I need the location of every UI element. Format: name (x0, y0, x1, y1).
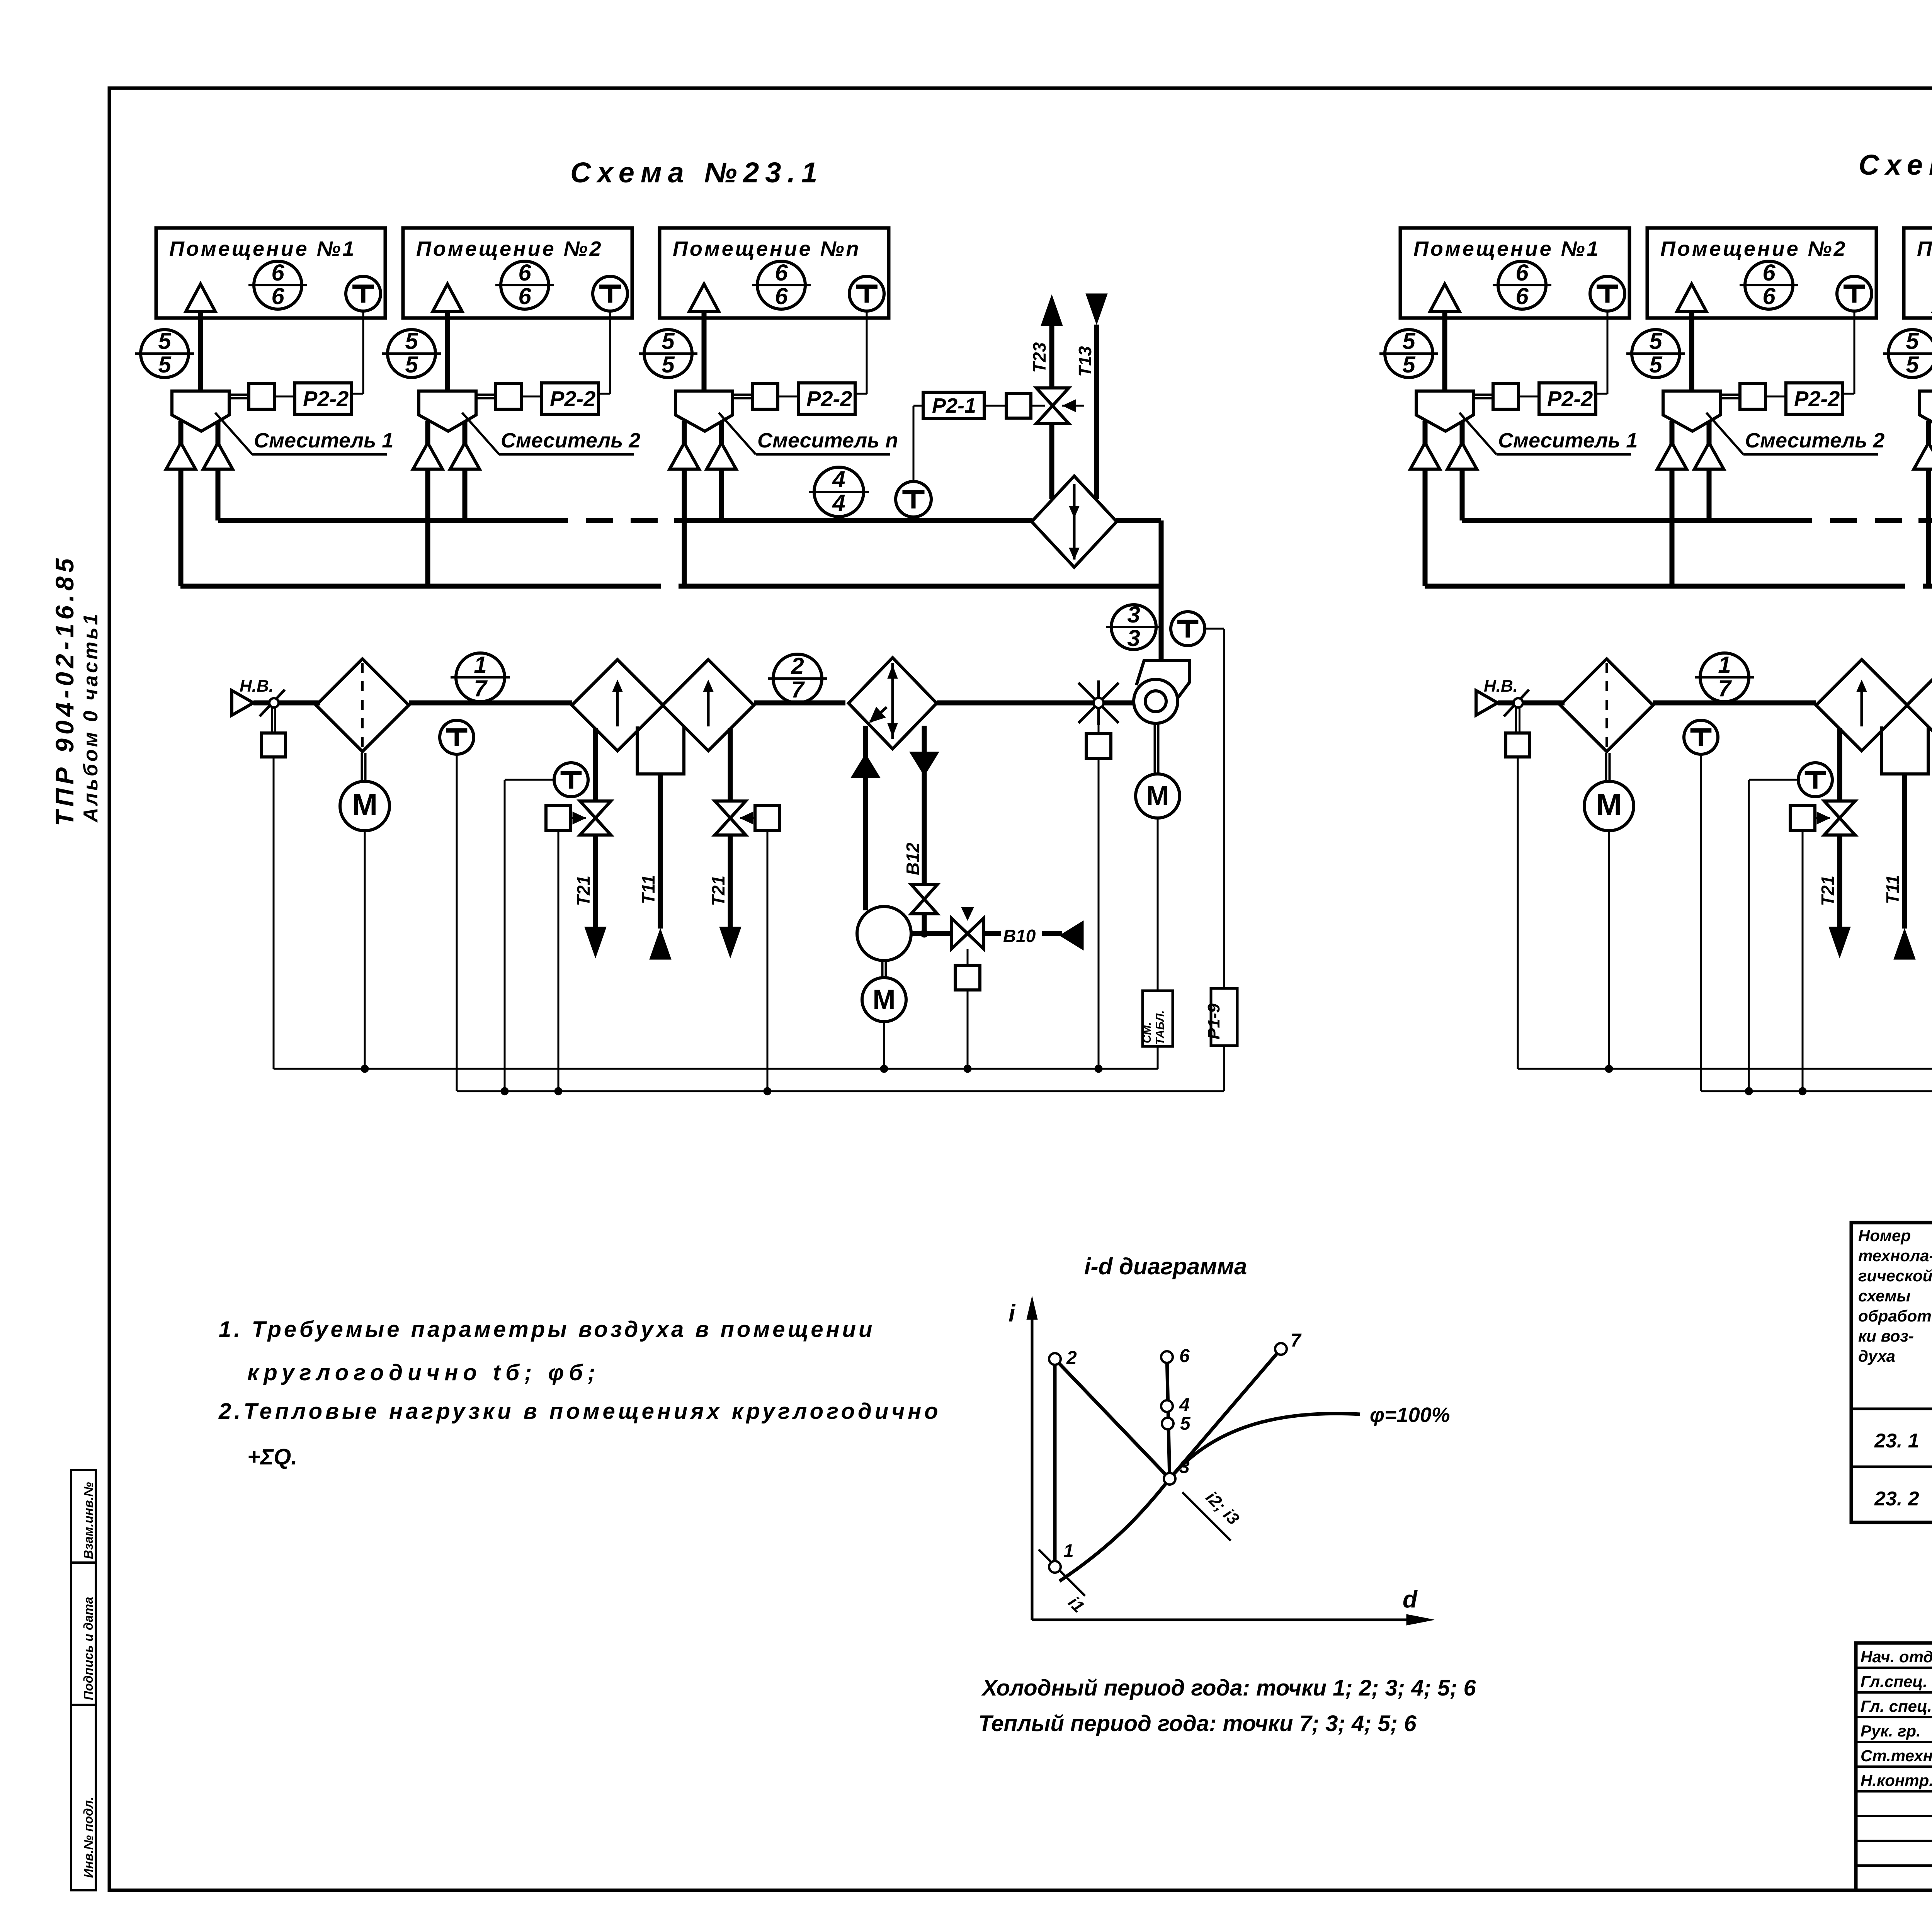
svg-text:Смеситель 2: Смеситель 2 (1745, 429, 1884, 452)
svg-text:Номер: Номер (1858, 1226, 1911, 1245)
table row 23.2 (1874, 1483, 1932, 1510)
i-d diagram d axis (1032, 1586, 1434, 1625)
svg-text:6: 6 (271, 283, 284, 309)
svg-text:5: 5 (1649, 328, 1663, 354)
room box Pomeshchenie No2 (schema 23.2) (1647, 228, 1876, 318)
room box Pomeshchenie Non (schema 23.1) (660, 228, 889, 318)
svg-text:7: 7 (1718, 675, 1732, 701)
pump motor M (schema 23.1) (862, 961, 906, 1022)
mixer body 23.1.1 (172, 391, 229, 431)
damper motor M (schema 23.2) (1584, 753, 1634, 831)
title block grid (1856, 1643, 1932, 1890)
svg-text:В12: В12 (903, 842, 923, 875)
drain line B10 label and arrow (schema 23.1) (984, 921, 1083, 950)
regulator box P2-2 23.2.1 (1539, 383, 1596, 414)
T sensor circle room 23.1.n (849, 276, 884, 311)
room box Pomeshchenie No2 (schema 23.1) (403, 228, 632, 318)
mixer actuator link 23.2.1 (1473, 384, 1539, 409)
tag box P1-9 (schema 23.1) (1204, 988, 1237, 1046)
svg-text:6: 6 (518, 260, 531, 286)
T sensor after damper (schema 23.1) (440, 720, 474, 754)
svg-text:5: 5 (1402, 328, 1416, 354)
tick through point 1 with label i1 (1039, 1549, 1088, 1616)
svg-text:Смеситель 1: Смеситель 1 (254, 429, 393, 452)
svg-text:схемы: схемы (1858, 1287, 1911, 1305)
room box Pomeshchenie No1 (schema 23.2) (1400, 228, 1629, 318)
svg-text:3: 3 (1179, 1457, 1190, 1477)
indicator circle 5/5 room 23.1.1 (135, 328, 194, 378)
svg-text:7: 7 (1291, 1330, 1302, 1351)
mixer body 23.2.2 (1663, 391, 1720, 431)
table row 23.1 (1874, 1427, 1932, 1455)
mixer input left line 23.2.n (1914, 421, 1932, 586)
svg-text:6: 6 (271, 260, 284, 286)
svg-text:6: 6 (1515, 260, 1529, 286)
mixer input right line 23.1.2 (450, 421, 480, 520)
svg-text:Рук. гр.: Рук. гр. (1861, 1722, 1921, 1740)
process line 3-6 (1167, 1357, 1170, 1479)
svg-text:1: 1 (1718, 652, 1731, 678)
supply diffuser triangle room 23.1.n (689, 284, 719, 391)
svg-text:Т21: Т21 (1818, 876, 1838, 906)
svg-text:Схема №23.1: Схема №23.1 (570, 156, 823, 189)
mixer body 23.2.1 (1416, 391, 1473, 431)
svg-text:ТАБЛ.: ТАБЛ. (1154, 1010, 1167, 1045)
svg-text:1: 1 (1063, 1541, 1074, 1561)
supply diffuser triangle room 23.2.1 (1430, 284, 1459, 391)
wire damper motor to bus A (schema 23.2) (1605, 830, 1613, 1073)
spray pump circle (schema 23.1) (857, 906, 911, 961)
svg-text:Помещение №2: Помещение №2 (416, 237, 603, 260)
heater valve T21 left (schema 23.1) (546, 728, 611, 958)
heater connection chamber (schema 23.1) (637, 726, 684, 774)
svg-text:5: 5 (662, 352, 675, 378)
svg-text:2: 2 (1066, 1348, 1077, 1368)
svg-text:Т23: Т23 (1029, 342, 1049, 373)
svg-text:обработ-: обработ- (1858, 1307, 1932, 1325)
svg-text:Р2-2: Р2-2 (1794, 386, 1840, 411)
sensor circle 6/6 room 23.2.1 (1493, 260, 1551, 309)
svg-text:Помещение №n: Помещение №n (1917, 237, 1932, 260)
recirculation bus upper (schema 23.1) (218, 518, 1161, 523)
left stamp box Vzam.inv. (71, 1470, 96, 1563)
svg-text:3: 3 (1127, 625, 1140, 651)
main line damper->heater (schema 23.1) (409, 701, 572, 706)
svg-text:7: 7 (474, 675, 488, 701)
recirculation bus upper (schema 23.2) (1462, 518, 1932, 523)
pipe T11 with arrow (schema 23.2) (1883, 774, 1915, 959)
svg-text:Ст.техн.: Ст.техн. (1861, 1747, 1932, 1765)
svg-text:23. 2: 23. 2 (1874, 1488, 1919, 1510)
svg-text:6: 6 (1515, 283, 1529, 309)
mixer actuator link 23.2.2 (1720, 384, 1786, 409)
circle 1/7 (schema 23.1) (451, 652, 510, 702)
T sensor at fan (schema 23.1) (1171, 612, 1205, 646)
T sensor heater (schema 23.1) (505, 763, 588, 797)
heater diamond 2 (schema 23.1) (663, 660, 754, 751)
svg-text:1. Требуемые параметры возду: 1. Требуемые параметры воздуха в помещен… (219, 1317, 875, 1342)
mixer label Smesitel n (719, 413, 898, 454)
room box Pomeshchenie No1 (schema 23.1) (156, 228, 385, 318)
exhaust bus lower (schema 23.1) (180, 584, 1161, 589)
P2-1 actuator square (schema 23.1) (984, 393, 1045, 418)
svg-text:В10: В10 (1003, 926, 1036, 946)
point 3 (1164, 1457, 1190, 1485)
schema title 23.2 (1859, 149, 1932, 181)
T sensor heater (schema 23.2) (1749, 763, 1832, 797)
svg-text:Инв.№ подл.: Инв.№ подл. (81, 1797, 95, 1878)
svg-text:5: 5 (1402, 352, 1416, 378)
svg-text:Помещение №2: Помещение №2 (1660, 237, 1847, 260)
svg-text:Р2-2: Р2-2 (806, 386, 852, 411)
heater diamond 2 (schema 23.2) (1907, 660, 1932, 751)
T23 valve (schema 23.1) (1036, 388, 1084, 423)
svg-text:6: 6 (518, 283, 531, 309)
svg-text:5: 5 (158, 352, 172, 378)
point 4 (1161, 1395, 1190, 1415)
sensor circle 6/6 room 23.2.2 (1740, 260, 1798, 309)
point 6 (1161, 1346, 1190, 1366)
wire T sensor to P2-2 room 23.1.1 (352, 311, 363, 394)
wire T2 to bus B (schema 23.1) (501, 780, 509, 1095)
intake damper (schema 23.1) (253, 690, 320, 757)
wire T1 to bus B (schema 23.1) (456, 754, 458, 1091)
control bus B (schema 23.1) (457, 1090, 1224, 1092)
indicator circle 4/4 (schema 23.1) (809, 466, 869, 517)
note 2 heat loads (218, 1399, 941, 1469)
mixer actuator link 23.1.n (733, 384, 798, 409)
svg-text:+ΣQ.: +ΣQ. (247, 1444, 297, 1469)
svg-text:Нач. отд: Нач. отд (1861, 1648, 1932, 1666)
wire valve T21 left to bus B (schema 23.2) (1799, 830, 1806, 1095)
svg-text:ки воз-: ки воз- (1858, 1327, 1914, 1345)
svg-text:Помещение №1: Помещение №1 (169, 237, 356, 260)
wire T2 to bus B (schema 23.2) (1745, 780, 1753, 1095)
svg-text:М: М (352, 787, 378, 822)
svg-text:Подпись и дата: Подпись и дата (81, 1597, 95, 1701)
wire T sensor to P2-2 room 23.1.n (855, 311, 867, 394)
svg-text:Гл. спец.: Гл. спец. (1861, 1697, 1932, 1715)
left stamp box Inv.No podl. (71, 1705, 96, 1890)
heater diamond 1 (schema 23.2) (1816, 660, 1907, 751)
indicator circle 5/5 room 23.2.n (1883, 328, 1932, 378)
svg-text:i-d диаграмма: i-d диаграмма (1084, 1253, 1247, 1279)
svg-text:Н.В.: Н.В. (1484, 677, 1518, 696)
table header col1 (1858, 1226, 1932, 1365)
cooler supply pipe with up arrow (schema 23.1) (851, 726, 880, 910)
svg-text:Р2-2: Р2-2 (1547, 386, 1593, 411)
point 1 (1049, 1541, 1074, 1573)
wire T sensor to P2-2 room 23.1.2 (599, 311, 610, 394)
mixer actuator link 23.1.2 (476, 384, 542, 409)
mixer body 23.1.2 (419, 391, 476, 431)
svg-text:Холодный период года: точки 1;: Холодный период года: точки 1; 2; 3; 4; … (981, 1675, 1476, 1701)
sensor circle 6/6 room 23.1.2 (495, 260, 554, 309)
svg-text:СМ.: СМ. (1141, 1022, 1153, 1043)
process line 3-7 (1170, 1349, 1281, 1479)
mixer input right line 23.1.1 (203, 421, 233, 520)
svg-text:7: 7 (791, 677, 805, 702)
heat recovery exchanger diamond (schema 23.1) (1032, 476, 1117, 567)
svg-text:Т21: Т21 (573, 876, 594, 906)
indicator circle 5/5 room 23.1.n (639, 328, 697, 378)
svg-text:Т11: Т11 (1883, 875, 1903, 904)
svg-text:Теплый период года: точки 7; 3: Теплый период года: точки 7; 3; 4; 5; 6 (978, 1711, 1417, 1736)
svg-text:5: 5 (662, 328, 675, 354)
tag box SM.TABL. on fan motor wire (schema 23.1) (1141, 818, 1173, 1069)
svg-text:6: 6 (1762, 260, 1776, 286)
svg-text:1: 1 (474, 652, 486, 678)
note 1 required air parameters (219, 1317, 875, 1385)
svg-text:Р2-2: Р2-2 (550, 386, 595, 411)
outdoor air intake N.V. (schema 23.1) (232, 677, 274, 715)
regulator box P2-2 23.1.1 (295, 383, 352, 414)
svg-text:5: 5 (405, 352, 418, 378)
svg-text:ТПР 904-02-16.85: ТПР 904-02-16.85 (50, 554, 79, 826)
wire T sensor to P2-2 room 23.2.2 (1843, 311, 1854, 394)
left stamp box Podpis i data (71, 1563, 96, 1705)
schema title 23.1 (570, 156, 823, 189)
cooler diamond (schema 23.1) (849, 658, 937, 749)
wire valve B10 to bus A (schema 23.1) (964, 990, 971, 1073)
main line heater->cooler (schema 23.1) (754, 701, 845, 706)
wire valve T21 left to bus B (schema 23.1) (554, 830, 562, 1095)
svg-text:6: 6 (775, 260, 788, 286)
svg-text:Помещение №1: Помещение №1 (1413, 237, 1600, 260)
svg-text:i: i (1009, 1300, 1016, 1327)
T sensor circle room 23.1.1 (346, 276, 381, 311)
T sensor circle room 23.2.2 (1837, 276, 1872, 311)
svg-text:Смеситель 1: Смеситель 1 (1498, 429, 1638, 452)
title block signature labels (1861, 1648, 1932, 1789)
mixer input left line 23.2.2 (1657, 421, 1687, 586)
wire intake damper to bus A (schema 23.1) (273, 757, 275, 1069)
mixer input right line 23.2.2 (1694, 421, 1724, 520)
indicator circle 5/5 room 23.2.1 (1379, 328, 1438, 378)
circle 1/7 (schema 23.2) (1695, 652, 1754, 702)
svg-text:d: d (1403, 1586, 1418, 1613)
point 2 (1049, 1348, 1077, 1368)
main line damper->heater (schema 23.2) (1653, 701, 1816, 706)
svg-text:М: М (1596, 787, 1622, 822)
mixer body 23.2.n (1920, 391, 1932, 431)
svg-text:4: 4 (832, 490, 845, 516)
svg-text:3: 3 (1127, 602, 1140, 628)
wire pump motor to bus A (schema 23.1) (880, 1022, 888, 1073)
svg-text:6: 6 (1762, 283, 1776, 309)
svg-text:Р1-9: Р1-9 (1204, 1003, 1223, 1039)
svg-text:духа: духа (1858, 1347, 1895, 1365)
i-d diagram i axis (1009, 1296, 1037, 1620)
circle 2/7 (schema 23.1) (768, 653, 827, 703)
regulator box P2-2 23.2.2 (1786, 383, 1843, 414)
mixer actuator link 23.1.1 (229, 384, 295, 409)
outdoor air intake N.V. (schema 23.2) (1476, 677, 1518, 715)
svg-text:Альбом 0 часть1: Альбом 0 часть1 (80, 612, 102, 823)
left margin vertical text TPR 904-02-16.85 Album 0 part 1 (50, 554, 102, 826)
mixer body 23.1.n (675, 391, 733, 431)
heater diamond 1 (schema 23.1) (572, 660, 663, 751)
pipe T23 with arrow (schema 23.1) (1029, 295, 1063, 499)
regulator box P2-1 (schema 23.1) (923, 392, 984, 418)
svg-text:4: 4 (832, 466, 845, 492)
svg-text:Н.В.: Н.В. (240, 677, 274, 696)
main line cooler->fan with shutoff (schema 23.1) (937, 680, 1134, 759)
indicator circle 5/5 room 23.1.2 (382, 328, 441, 378)
svg-text:Т21: Т21 (708, 876, 728, 906)
wire fan shutoff to bus A (schema 23.1) (1095, 759, 1102, 1073)
svg-text:6: 6 (1179, 1346, 1190, 1366)
wire T to P2-1 (schema 23.1) (913, 406, 923, 481)
mixer input left line 23.2.1 (1410, 421, 1440, 586)
mixer label Smesitel 1 (215, 413, 393, 454)
T sensor near 4/4 (schema 23.1) (896, 481, 931, 517)
svg-text:5: 5 (1906, 328, 1919, 354)
exhaust bus lower (schema 23.2) (1425, 584, 1932, 589)
svg-text:круглогодично tб; φб;: круглогодично tб; φб; (247, 1360, 600, 1385)
svg-text:Т13: Т13 (1075, 346, 1095, 377)
svg-text:Р2-1: Р2-1 (932, 394, 976, 417)
tick through point 3 with labels i2 i3 (1182, 1488, 1243, 1541)
intake damper (schema 23.2) (1498, 690, 1565, 757)
mixer label Smesitel 2 (1706, 413, 1884, 454)
wire T1 to bus B (schema 23.2) (1700, 754, 1702, 1091)
svg-text:2.Тепловые нагрузки в помещ: 2.Тепловые нагрузки в помещениях круглог… (218, 1399, 941, 1424)
air damper diamond with dashed axis (schema 23.2) (1560, 659, 1653, 752)
wire T sensor to P2-2 room 23.2.1 (1596, 311, 1607, 394)
wire valve T21 right to bus B (schema 23.1) (764, 830, 771, 1095)
mixer input right line 23.2.1 (1447, 421, 1477, 520)
process line 2-3 (1055, 1359, 1170, 1479)
svg-text:Смеситель n: Смеситель n (757, 429, 898, 452)
svg-text:φ=100%: φ=100% (1370, 1403, 1450, 1427)
heater connection chamber (schema 23.2) (1881, 726, 1928, 774)
damper motor M (schema 23.1) (340, 753, 389, 831)
mixer input left line 23.1.n (670, 421, 699, 586)
svg-text:5: 5 (405, 328, 418, 354)
svg-text:технола-: технола- (1858, 1247, 1932, 1265)
supply diffuser triangle room 23.1.1 (186, 284, 215, 391)
cooler return pipe B12 (schema 23.1) (903, 726, 939, 934)
T sensor after damper (schema 23.2) (1684, 720, 1718, 754)
phi 100 percent curve (1060, 1403, 1450, 1581)
svg-text:М: М (872, 985, 895, 1015)
wire damper motor to bus A (schema 23.1) (361, 830, 369, 1073)
supply diffuser triangle room 23.1.2 (433, 284, 462, 391)
fan motor M (schema 23.1) (1136, 723, 1180, 818)
T sensor circle room 23.1.2 (593, 276, 628, 311)
svg-text:гической: гической (1858, 1267, 1932, 1285)
heater valve T21 right (schema 23.1) (708, 728, 780, 958)
svg-text:5: 5 (1180, 1413, 1191, 1434)
svg-text:5: 5 (158, 328, 172, 354)
riser from buses to fan (schema 23.1) (1159, 520, 1164, 662)
pump outlet line to valve B10 (schema 23.1) (911, 930, 951, 937)
mixer input left line 23.1.2 (413, 421, 442, 586)
point 7 (1275, 1330, 1302, 1355)
regulator box P2-2 23.1.n (798, 383, 855, 414)
svg-text:М: М (1146, 781, 1169, 811)
indicator circle 5/5 room 23.2.2 (1626, 328, 1685, 378)
svg-text:Смеситель 2: Смеситель 2 (501, 429, 640, 452)
sensor circle 6/6 room 23.1.1 (248, 260, 307, 309)
control bus A (schema 23.2) (1518, 1068, 1932, 1070)
mixer input right line 23.1.n (707, 421, 736, 520)
control bus A (schema 23.1) (274, 1068, 1158, 1070)
svg-text:5: 5 (1906, 352, 1919, 378)
T sensor circle room 23.2.1 (1590, 276, 1625, 311)
regulator box P2-2 23.1.2 (542, 383, 599, 414)
mixer label Smesitel 2 (462, 413, 640, 454)
sensor circle 6/6 room 23.1.n (752, 260, 811, 309)
valve B10 with actuator (schema 23.1) (951, 907, 984, 990)
svg-text:Помещение №n: Помещение №n (673, 237, 861, 260)
svg-text:Н.контр.: Н.контр. (1861, 1771, 1932, 1789)
svg-text:Гл.спец.: Гл.спец. (1861, 1672, 1927, 1690)
wire T fan sensor to P1-9 (schema 23.1) (1205, 629, 1224, 1091)
control bus B (schema 23.2) (1701, 1090, 1932, 1092)
svg-text:Т11: Т11 (638, 875, 658, 904)
supply diffuser triangle room 23.2.2 (1677, 284, 1706, 391)
mixer label Smesitel 1 (1459, 413, 1638, 454)
air damper diamond with dashed axis (schema 23.1) (316, 659, 409, 752)
svg-text:4: 4 (1179, 1395, 1190, 1415)
svg-text:23. 1: 23. 1 (1874, 1430, 1919, 1452)
svg-text:5: 5 (1649, 352, 1663, 378)
heater valve T21 left (schema 23.2) (1790, 728, 1855, 958)
wire intake damper to bus A (schema 23.2) (1517, 757, 1519, 1069)
cold period caption (981, 1675, 1476, 1701)
pipe T11 with arrow (schema 23.1) (638, 774, 671, 959)
point 5 (1162, 1413, 1191, 1434)
pipe T13 with arrow (schema 23.1) (1075, 294, 1107, 499)
circle 3/3 (schema 23.1) (1106, 602, 1162, 651)
svg-text:2: 2 (791, 653, 804, 679)
albums table grid (1851, 1223, 1932, 1522)
i-d diagram title (1084, 1253, 1247, 1279)
process line 1-2 (1053, 1359, 1057, 1567)
svg-text:Схема №23.2: Схема №23.2 (1859, 149, 1932, 181)
warm period caption (978, 1711, 1417, 1736)
room box Pomeshchenie Non (schema 23.2) (1904, 228, 1932, 318)
supply fan (schema 23.1) (1134, 660, 1190, 723)
mixer input left line 23.1.1 (166, 421, 196, 586)
svg-text:Р2-2: Р2-2 (303, 386, 349, 411)
svg-text:6: 6 (775, 283, 788, 309)
svg-text:Взам.инв.№: Взам.инв.№ (81, 1482, 95, 1559)
